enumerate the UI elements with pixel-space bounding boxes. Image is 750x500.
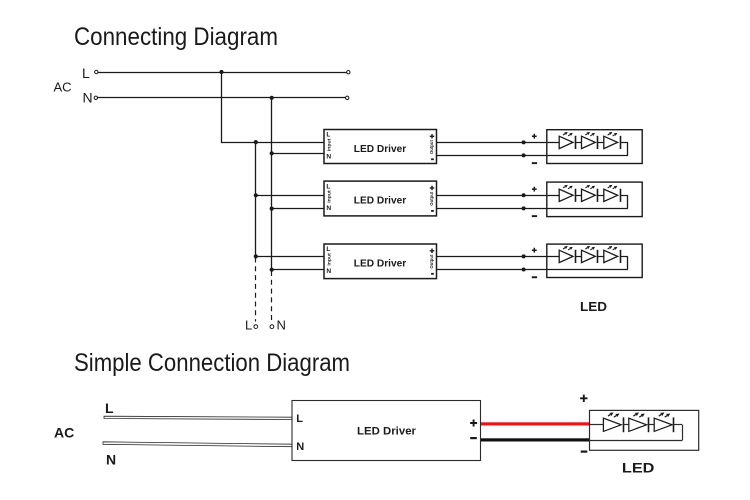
wire L bus vertical	[255, 142, 257, 256]
svg-text:AC: AC	[54, 425, 74, 441]
LED D41	[603, 418, 621, 431]
LED D33	[604, 250, 618, 262]
U3 pin label minus	[431, 273, 434, 275]
LED emission arrow	[608, 414, 610, 416]
wire U1 output +	[437, 142, 560, 144]
terminal circle N right	[346, 96, 349, 99]
LED emission arrow	[568, 249, 570, 250]
LED D12	[582, 136, 596, 148]
LED emission arrow	[613, 249, 615, 250]
LED D11	[559, 136, 573, 148]
U1 pin label +	[430, 134, 435, 139]
LED emission arrow	[608, 134, 610, 135]
wire L dashed tail	[255, 258, 257, 322]
junction dot	[254, 140, 258, 144]
wire LED link	[623, 424, 629, 426]
wire row3 N feed	[272, 269, 324, 271]
svg-text:L: L	[82, 65, 90, 81]
LED Driver U4 box (simple diagram)	[292, 401, 481, 461]
LED D23	[604, 189, 618, 201]
svg-text:N: N	[106, 452, 116, 468]
LED emission arrow	[585, 248, 587, 249]
U1 pin label minus	[431, 158, 434, 160]
wire L input (outlined cable)	[104, 416, 292, 419]
junction dot	[270, 207, 274, 211]
LED D31	[559, 250, 573, 262]
junction dot	[270, 151, 274, 155]
wire U3 output -	[437, 269, 628, 271]
wire L rail	[98, 72, 347, 74]
wire LED return vertical	[682, 425, 684, 441]
U2 pin label +	[430, 186, 435, 191]
label - row1	[532, 162, 537, 164]
wire output - (black)	[481, 438, 590, 441]
junction dot output - row2	[522, 206, 526, 210]
wire LED chain to return	[620, 195, 628, 197]
LED D22	[582, 189, 596, 201]
LED module box row2	[547, 182, 642, 217]
LED emission arrow	[590, 249, 592, 250]
label + (near LED module)	[580, 395, 587, 402]
LED emission arrow	[568, 135, 570, 136]
svg-text:L: L	[326, 132, 330, 139]
LED D43	[654, 418, 672, 431]
junction dot output - row3	[522, 268, 526, 272]
wire U2 output +	[437, 195, 560, 197]
label + row1	[532, 134, 537, 139]
terminal circle L dashed	[254, 325, 258, 329]
LED emission arrow	[563, 248, 565, 249]
svg-text:Connecting Diagram: Connecting Diagram	[74, 23, 278, 51]
LED emission arrow	[613, 187, 615, 188]
wire LED return vertical	[627, 256, 629, 269]
svg-text:AC: AC	[54, 80, 72, 95]
wire N rail	[98, 97, 346, 99]
svg-text:LED Driver: LED Driver	[354, 144, 407, 155]
wire chain entry	[590, 424, 604, 426]
label - row2	[532, 215, 537, 217]
junction dot	[254, 193, 258, 197]
LED module box (simple diagram)	[590, 410, 699, 450]
svg-text:N: N	[326, 268, 331, 275]
LED emission arrow	[590, 135, 592, 136]
LED emission arrow	[665, 416, 667, 418]
LED emission arrow	[563, 187, 565, 188]
U3 pin label +	[430, 249, 435, 254]
svg-text:Input: Input	[327, 138, 333, 151]
LED emission arrow	[639, 416, 641, 418]
LED emission arrow	[608, 187, 610, 188]
LED emission arrow	[633, 414, 635, 416]
LED emission arrow	[563, 134, 565, 135]
wire L drop from rail	[221, 72, 223, 143]
LED emission arrow	[568, 187, 570, 188]
svg-text:Input: Input	[327, 253, 333, 266]
svg-text:LED: LED	[580, 299, 607, 314]
LED module box row1	[547, 130, 642, 164]
label - row3	[532, 276, 537, 278]
wire row3 L feed	[256, 256, 324, 258]
wire N bus vertical	[271, 98, 273, 270]
U4 pin label +	[470, 420, 477, 427]
wire LED return vertical	[627, 195, 629, 208]
svg-text:Input: Input	[327, 190, 333, 203]
LED emission arrow	[614, 416, 616, 418]
svg-text:N: N	[83, 90, 93, 106]
svg-text:LED Driver: LED Driver	[357, 426, 416, 438]
svg-text:N: N	[326, 153, 331, 160]
label + row2	[532, 187, 537, 192]
svg-text:LED Driver: LED Driver	[354, 258, 407, 269]
junction dot L rail	[219, 70, 223, 74]
LED Driver U1 box	[324, 130, 437, 164]
wire LED link	[576, 142, 582, 144]
wire LED link	[598, 195, 604, 197]
wire U3 output +	[437, 256, 560, 258]
svg-text:LED Driver: LED Driver	[354, 195, 407, 206]
wire LED link	[649, 424, 655, 426]
LED D21	[559, 189, 573, 201]
junction dot output + row2	[522, 193, 526, 197]
svg-text:LED: LED	[622, 460, 655, 476]
wire LED link	[576, 256, 582, 258]
U2 pin label minus	[431, 210, 434, 212]
svg-text:Output: Output	[429, 254, 435, 268]
wire LED chain to return	[674, 424, 682, 426]
junction dot	[270, 268, 274, 272]
wire N dashed tail	[271, 271, 273, 322]
wire LED link	[598, 256, 604, 258]
wire row1 L feed	[222, 142, 325, 144]
LED emission arrow	[613, 135, 615, 136]
junction dot output + row1	[522, 140, 526, 144]
wire row2 L feed	[256, 195, 324, 197]
svg-text:Output: Output	[429, 140, 435, 154]
wire row2 N feed	[272, 208, 324, 210]
wire LED chain to return	[620, 256, 628, 258]
wire N input (outlined cable)	[103, 442, 292, 447]
U4 pin label minus	[470, 437, 477, 439]
LED emission arrow	[585, 134, 587, 135]
terminal circle L left	[95, 70, 98, 73]
wire LED return horizontal	[590, 440, 683, 442]
wire row1 N feed	[272, 153, 324, 155]
terminal circle L right	[347, 71, 350, 74]
wire output + (red)	[481, 422, 590, 425]
LED Driver U2 box	[324, 181, 437, 216]
svg-text:L: L	[105, 400, 114, 416]
svg-text:L: L	[326, 183, 330, 190]
LED module box row3	[547, 244, 642, 277]
junction dot N rail	[270, 96, 274, 100]
junction dot output + row3	[522, 254, 526, 258]
LED emission arrow	[608, 248, 610, 249]
svg-text:Output: Output	[429, 191, 435, 205]
svg-text:N: N	[296, 441, 304, 453]
svg-text:Simple Connection Diagram: Simple Connection Diagram	[74, 349, 350, 377]
terminal circle N dashed	[270, 325, 274, 329]
LED D13	[604, 136, 618, 148]
terminal circle N left	[94, 96, 97, 99]
LED Driver U3 box	[324, 244, 437, 279]
label + row3	[532, 248, 537, 253]
LED D42	[629, 418, 647, 431]
LED emission arrow	[590, 187, 592, 188]
junction dot output - row1	[522, 153, 526, 157]
label - (near LED module)	[581, 451, 588, 453]
LED emission arrow	[585, 187, 587, 188]
wire LED link	[598, 142, 604, 144]
svg-text:L: L	[326, 246, 330, 253]
wire U2 output -	[437, 208, 628, 210]
svg-text:N: N	[277, 318, 286, 333]
wire LED return vertical	[627, 142, 629, 155]
wire LED chain to return	[620, 142, 628, 144]
wire LED link	[576, 195, 582, 197]
LED emission arrow	[659, 414, 661, 416]
svg-text:L: L	[245, 318, 252, 333]
svg-text:N: N	[326, 205, 331, 212]
LED D32	[582, 250, 596, 262]
svg-text:L: L	[296, 413, 303, 425]
junction dot	[254, 254, 258, 258]
wire U1 output -	[437, 155, 628, 157]
